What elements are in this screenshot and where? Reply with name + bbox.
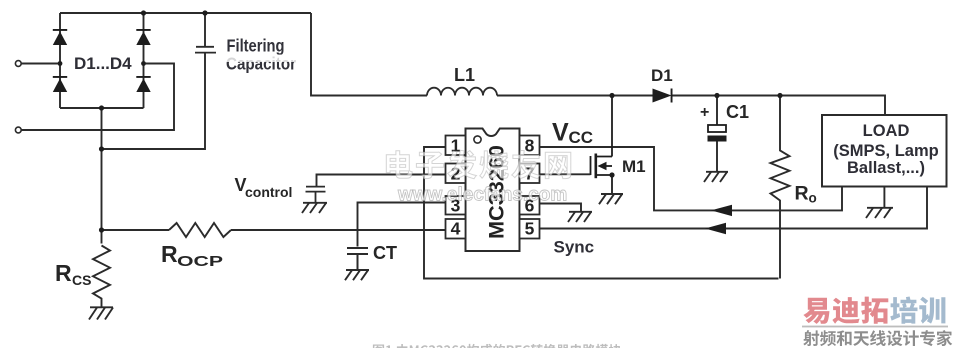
wire pin6 to ground <box>540 204 582 212</box>
svg-text:control: control <box>245 184 292 200</box>
wire AC input 2 <box>21 64 174 131</box>
svg-text:5: 5 <box>525 219 535 239</box>
svg-text:Filtering: Filtering <box>227 36 285 56</box>
arrow on Vcc line <box>711 205 732 216</box>
ground CT <box>345 270 369 280</box>
wire bridge bottom rail <box>60 107 144 109</box>
capacitor Vcontrol <box>306 187 326 203</box>
arrow M1 body <box>598 162 607 170</box>
node cap return <box>99 146 104 151</box>
ground M1 <box>599 194 623 204</box>
diode D1 <box>653 89 673 103</box>
pin 8 <box>520 136 540 156</box>
terminal input 1 <box>15 61 21 67</box>
node bridge right mid <box>141 61 146 66</box>
svg-text:www.elecfans.com: www.elecfans.com <box>397 185 567 206</box>
capacitor filtering <box>195 47 216 53</box>
svg-text:Sync: Sync <box>554 238 595 257</box>
resistor Rocp <box>169 223 231 237</box>
capacitor C1 <box>708 96 727 172</box>
inductor L1 <box>427 88 497 96</box>
ground LOAD <box>866 208 893 218</box>
LOAD box <box>822 115 947 187</box>
svg-text:4: 4 <box>451 219 461 239</box>
logo subtitle <box>803 330 952 346</box>
wire filtering capacitor top stem <box>204 13 206 46</box>
ground Vcontrol <box>302 203 327 213</box>
diode bridge upper-left <box>53 32 67 46</box>
svg-text:L1: L1 <box>454 65 475 85</box>
wire negative rail <box>101 108 103 244</box>
terminal input 2 <box>15 127 21 133</box>
diode bridge upper-right <box>136 32 150 46</box>
svg-text:C1: C1 <box>726 102 749 122</box>
diode bridge lower-right <box>136 79 150 93</box>
svg-text:M1: M1 <box>622 157 646 176</box>
node C1 <box>714 93 719 98</box>
wire pin2 Vcontrol <box>317 175 446 187</box>
pin 4 <box>446 219 466 239</box>
svg-text:LOAD: LOAD <box>863 122 910 140</box>
pin 2 <box>446 164 466 184</box>
arrow on Sync line <box>705 223 726 234</box>
pin 6 <box>520 196 540 215</box>
white fade over Capacitor top <box>218 55 302 63</box>
wire AC input 1 <box>21 63 60 65</box>
wire filtering capacitor bottom return <box>102 54 206 150</box>
wire Sync line <box>540 187 928 229</box>
op-amp U1 MC33260 body <box>466 129 520 252</box>
node drain <box>609 93 614 98</box>
ground Rcs <box>89 307 113 319</box>
svg-text:R: R <box>161 241 178 267</box>
transistor M1 <box>591 96 613 194</box>
resistor Rcs <box>93 246 110 308</box>
wire top rail <box>60 12 311 14</box>
caption fragment <box>373 344 621 348</box>
wire pin3 to CT <box>358 203 446 247</box>
logo underline <box>802 326 948 328</box>
diode bridge lower-left <box>53 79 67 93</box>
node top rail cap <box>202 10 207 15</box>
node top rail right branch <box>141 10 146 15</box>
logo red text <box>803 297 888 324</box>
svg-text:CS: CS <box>72 272 91 288</box>
wire pin1 feedback <box>424 147 779 279</box>
svg-text:CC: CC <box>569 128 594 147</box>
svg-text:V: V <box>552 119 569 147</box>
pin 1 indicator dot <box>474 136 481 143</box>
svg-text:D1: D1 <box>651 66 673 85</box>
wire Vcc feedback line <box>540 147 843 210</box>
ground pin6 <box>568 212 592 222</box>
svg-text:D1...D4: D1...D4 <box>74 54 132 73</box>
node bridge bottom <box>99 105 104 110</box>
svg-text:+: + <box>700 104 709 121</box>
wire LOAD ground stem <box>883 187 885 208</box>
pin 5 <box>520 219 540 239</box>
resistor Ro <box>771 96 790 279</box>
pin 1 <box>446 136 466 156</box>
node Ro <box>777 93 782 98</box>
node M1 source <box>609 172 614 177</box>
ground C1 <box>704 172 728 182</box>
pin 3 <box>446 196 466 215</box>
watermark row 1 <box>386 150 571 178</box>
svg-text:o: o <box>809 191 817 206</box>
svg-text:(SMPS, Lamp: (SMPS, Lamp <box>833 142 938 160</box>
wire pin4 / Rocp line <box>102 229 446 231</box>
wire bridge left branch <box>59 13 61 108</box>
wire boost rail <box>311 13 885 115</box>
pin 7 <box>520 164 540 184</box>
wire pin7 to gate <box>540 173 591 175</box>
node Rocp <box>99 227 104 232</box>
svg-text:R: R <box>795 183 809 205</box>
node bridge left mid <box>58 61 63 66</box>
wire bridge right branch <box>143 13 145 108</box>
svg-text:R: R <box>55 260 72 286</box>
svg-text:Ballast,...): Ballast,...) <box>847 159 925 177</box>
svg-text:CT: CT <box>373 243 397 263</box>
svg-text:8: 8 <box>525 136 535 156</box>
svg-text:OCP: OCP <box>177 253 223 270</box>
capacitor CT <box>347 248 368 270</box>
